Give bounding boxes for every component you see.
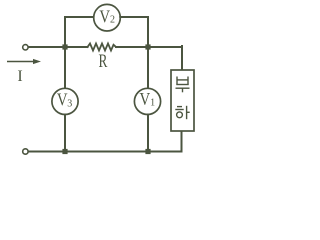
wire resistor to node B — [116, 46, 182, 48]
junction node A — [62, 44, 67, 49]
label V1 — [139, 89, 155, 110]
wire V1 down to bottom node D — [147, 115, 149, 152]
svg-text:2: 2 — [110, 15, 115, 26]
wire load bottom riser — [181, 131, 183, 152]
wire V2 to top branch right — [120, 16, 148, 18]
resistor R — [88, 44, 117, 51]
svg-text:V: V — [99, 6, 110, 27]
svg-text:3: 3 — [67, 98, 72, 109]
wire node B corner down to load top — [181, 46, 183, 70]
wire node B down to V1 — [147, 47, 149, 89]
load label hangul HA (drawn) — [175, 106, 189, 119]
wire node A down to V3 — [64, 47, 66, 89]
load box (buha) — [171, 70, 194, 131]
junction node C — [62, 149, 67, 154]
svg-text:V: V — [139, 89, 150, 110]
load label hangul BU (drawn) — [176, 77, 190, 93]
terminal T1 (top-left input) — [23, 45, 28, 50]
terminal T2 (bottom-left return) — [23, 149, 28, 154]
junction node B — [145, 44, 150, 49]
svg-text:1: 1 — [150, 98, 155, 109]
voltmeter V1 circle — [134, 88, 160, 114]
wire bottom return T2 to load riser — [29, 151, 182, 153]
svg-text:I: I — [17, 68, 22, 85]
wire V3 down to bottom node C — [64, 115, 66, 152]
current arrow I — [7, 59, 41, 64]
label V3 — [57, 89, 72, 110]
junction node D — [145, 149, 150, 154]
wire node A up (top branch left riser) — [64, 17, 66, 47]
wire top branch left horizontal to V2 — [65, 16, 94, 18]
voltmeter V2 circle — [94, 4, 121, 31]
voltmeter V3 circle — [52, 88, 78, 114]
svg-text:V: V — [57, 89, 68, 110]
wire terminal T1 to node A — [29, 46, 88, 48]
label V2 — [99, 6, 115, 27]
wire top branch right riser down to node B — [147, 17, 149, 47]
svg-text:R: R — [99, 52, 108, 72]
